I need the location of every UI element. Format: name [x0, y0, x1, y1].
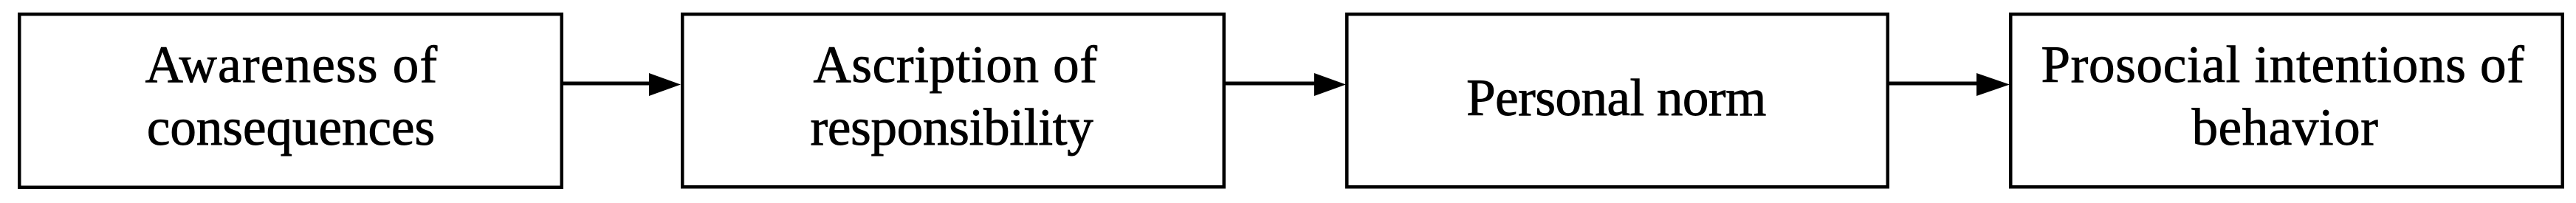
svg-text:Personal norm: Personal norm	[1466, 69, 1766, 127]
svg-text:behavior: behavior	[2192, 99, 2379, 156]
svg-text:Awareness of: Awareness of	[145, 36, 439, 94]
svg-text:Prosocial intentions of: Prosocial intentions of	[2041, 36, 2524, 94]
svg-text:consequences: consequences	[147, 99, 435, 156]
svg-text:Ascription of: Ascription of	[813, 36, 1097, 94]
svg-text:responsibility: responsibility	[810, 99, 1093, 156]
